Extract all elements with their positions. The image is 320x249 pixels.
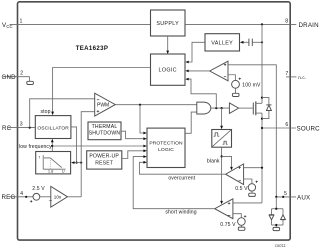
- diode D clamp left: [269, 209, 274, 225]
- svg-text:3: 3: [20, 122, 23, 128]
- wire SUPPLY to LOGIC: [166, 36, 169, 54]
- supply box U SUPPLY: [151, 10, 186, 36]
- thermal shutdown box U THERMAL SHUTDOWN: [88, 122, 121, 140]
- pin 4 REG wire: [9, 196, 33, 198]
- svg-text:SUPPLY: SUPPLY: [156, 21, 179, 27]
- svg-text:blank: blank: [207, 158, 220, 164]
- wire demag output to LOGIC: [185, 70, 209, 73]
- svg-text:AUX: AUX: [297, 194, 310, 201]
- svg-text:6: 6: [285, 122, 288, 128]
- svg-text:DRAIN: DRAIN: [299, 22, 319, 29]
- svg-text:PROTECTION: PROTECTION: [149, 140, 183, 146]
- svg-text:0.75 V: 0.75 V: [220, 222, 236, 228]
- wire PWM output to AND gate: [115, 104, 197, 106]
- oscillator box U OSCILLATOR: [35, 116, 71, 139]
- node AUX demag junction: [275, 196, 277, 198]
- node valley cap to drain line: [261, 41, 263, 43]
- svg-text:0.5 V: 0.5 V: [235, 186, 248, 192]
- comparator U short winding 0.75V: [215, 199, 233, 219]
- svg-text:LOGIC: LOGIC: [158, 147, 174, 153]
- svg-text:POWER-UP: POWER-UP: [89, 154, 119, 160]
- wire control voltage to PWM: [81, 112, 95, 197]
- node gate drive to blanking: [221, 107, 223, 109]
- svg-text:stop: stop: [40, 109, 50, 115]
- svg-text:7: 7: [285, 71, 288, 77]
- valley box U VALLEY: [205, 34, 240, 51]
- wire blanking output: [220, 147, 223, 204]
- node gate drive to LOGIC feedback: [215, 107, 217, 109]
- svg-text:10x: 10x: [54, 195, 62, 200]
- node REG junction: [25, 196, 27, 198]
- node body diode bottom: [261, 118, 263, 120]
- wire short winding + input to source net: [233, 202, 262, 204]
- driver buffer U2: [229, 103, 238, 114]
- node clamp top tap: [275, 208, 277, 210]
- svg-text:TEA1623P: TEA1623P: [76, 45, 109, 52]
- svg-text:+: +: [228, 202, 231, 207]
- svg-text:−: −: [224, 76, 227, 81]
- svg-text:low frequency: low frequency: [19, 144, 52, 150]
- svg-text:LOGIC: LOGIC: [159, 68, 177, 74]
- wire VALLEY output to LOGIC: [185, 42, 205, 63]
- svg-text:+: +: [224, 64, 227, 69]
- amplifier U 10x: [51, 186, 68, 207]
- svg-text:VALLEY: VALLEY: [211, 40, 233, 46]
- ground symbol at 0.5V source: [249, 193, 256, 196]
- wire RC to PWM + input: [30, 99, 95, 128]
- node source sense junction: [261, 167, 263, 169]
- wire short winding output to PROTECTION LOGIC: [133, 155, 215, 209]
- node clamp center tap: [275, 224, 277, 226]
- voltage source V 2.5 V: [30, 186, 53, 205]
- pin 1 VCC wire: [10, 23, 151, 25]
- capacitor C valley sense: [240, 39, 262, 46]
- svg-text:+: +: [255, 181, 258, 186]
- wire short winding - input to 0.75V source: [233, 214, 241, 218]
- node low frequency junction: [51, 145, 53, 147]
- wire PWM branch to PROTECTION LOGIC input 1: [140, 105, 147, 135]
- wire control to graph box: [71, 161, 81, 164]
- pin 7 n.c. stub: [286, 76, 296, 78]
- svg-text:+: +: [238, 167, 241, 172]
- comparator U overcurrent 0.5V: [226, 164, 244, 185]
- protection logic box U PROTECTION LOGIC: [147, 128, 185, 167]
- wire OSCILLATOR low frequency to graph box: [51, 139, 54, 152]
- node blank branch: [221, 155, 223, 157]
- wire driver to MOSFET gate: [239, 107, 253, 109]
- svg-text:REG: REG: [2, 194, 16, 201]
- svg-text:2.5 V: 2.5 V: [32, 186, 45, 192]
- svg-text:SOURCE: SOURCE: [297, 126, 320, 133]
- svg-text:n.c.: n.c.: [298, 76, 306, 81]
- node RC junction: [29, 127, 31, 129]
- pin 2 GND wire: [3, 77, 30, 82]
- svg-text:PWM: PWM: [97, 103, 109, 109]
- svg-text:+: +: [97, 110, 100, 115]
- diode D clamp right: [281, 209, 286, 225]
- wire AND output to driver: [211, 107, 230, 109]
- ground symbol at 0.75V source: [238, 227, 245, 230]
- voltage source V 100 mV: [232, 78, 261, 94]
- voltage source V 0.5 V: [235, 181, 258, 194]
- node control voltage junction: [80, 162, 82, 164]
- svg-text:−: −: [228, 214, 231, 219]
- ground symbol at 100mV source: [232, 93, 239, 96]
- wire AUX clamp branch: [272, 197, 284, 209]
- wire demag - input to 100mV source: [228, 75, 235, 81]
- svg-text:+: +: [244, 215, 247, 220]
- diode D body: [262, 98, 272, 119]
- and gate U1: [197, 102, 211, 114]
- wire SUPPLY to DRAIN pin 8: [185, 23, 296, 25]
- wire THERMAL SHUTDOWN to PROTECTION LOGIC input 2: [121, 131, 147, 140]
- svg-text:ca011: ca011: [275, 243, 286, 248]
- svg-text:overcurrent: overcurrent: [168, 176, 195, 182]
- svg-text:U: U: [62, 168, 65, 173]
- wire gate drive to blanking box: [220, 108, 223, 129]
- svg-text:RC: RC: [2, 125, 12, 132]
- svg-text:GND: GND: [2, 74, 17, 81]
- wire demag + input to AUX net: [228, 65, 276, 197]
- wire MOSFET source vertical: [261, 113, 263, 203]
- svg-text:OSCILLATOR: OSCILLATOR: [37, 125, 69, 131]
- frequency law graph box: [36, 152, 71, 174]
- wire 10x output to control net: [68, 196, 82, 198]
- wire low frequency to PROTECTION LOGIC input 3: [52, 145, 146, 148]
- wire overcurrent + input to source net: [244, 167, 262, 169]
- ground symbol at GND pin: [27, 81, 34, 84]
- wire PROTECTION LOGIC output to AND gate: [185, 112, 197, 133]
- wire blank to overcurrent comparator: [222, 156, 233, 170]
- wire POWER-UP RESET to PROTECTION LOGIC input 4: [122, 149, 147, 158]
- wire OSCILLATOR output down: [71, 127, 77, 163]
- svg-text:short winding: short winding: [165, 210, 196, 216]
- node oscillator control junction: [76, 162, 78, 164]
- wire gate drive feedback to LOGIC: [185, 78, 216, 108]
- node body diode top: [261, 97, 263, 99]
- transistor Q power MOSFET: [253, 101, 262, 115]
- svg-text:8: 8: [285, 19, 288, 25]
- svg-text:THERMAL: THERMAL: [92, 124, 118, 130]
- wire overcurrent - input to 0.5V source: [244, 179, 252, 184]
- svg-text:4: 4: [20, 191, 23, 197]
- blanking one-shot box: [212, 130, 232, 148]
- svg-text:f: f: [39, 154, 41, 159]
- logic box U LOGIC: [151, 54, 186, 85]
- wire LOGIC stop to OSCILLATOR: [51, 68, 150, 116]
- node source junction: [261, 127, 263, 129]
- ground symbol at AUX clamp: [273, 227, 280, 230]
- comparator U demagnetization: [210, 61, 228, 81]
- svg-text:5: 5: [284, 191, 287, 197]
- svg-text:VCC: VCC: [2, 22, 13, 29]
- pin 5 AUX wire: [276, 196, 296, 198]
- svg-text:2: 2: [20, 70, 23, 76]
- svg-text:+: +: [30, 200, 33, 205]
- svg-text:+: +: [238, 78, 241, 83]
- svg-text:1.8: 1.8: [48, 168, 54, 173]
- wire drain vertical line: [261, 24, 263, 103]
- svg-text:−: −: [239, 179, 242, 184]
- svg-text:RESET: RESET: [95, 160, 113, 166]
- pwm comparator U PWM: [95, 93, 116, 116]
- node PWM output branch: [139, 104, 141, 106]
- node DRAIN junction: [261, 23, 263, 25]
- voltage source V 0.75 V: [220, 215, 246, 228]
- wire overcurrent output to PROTECTION LOGIC: [139, 161, 225, 174]
- pin 3 RC wire: [8, 127, 35, 129]
- power-up reset box U POWER-UP RESET: [87, 151, 122, 169]
- svg-text:100 mV: 100 mV: [242, 82, 261, 88]
- wire clamp bottom bus: [272, 225, 284, 227]
- svg-text:1: 1: [20, 19, 23, 25]
- node AUX pin dot: [282, 196, 284, 198]
- svg-text:SHUTDOWN: SHUTDOWN: [89, 131, 121, 137]
- pin 6 SOURCE wire: [262, 127, 296, 129]
